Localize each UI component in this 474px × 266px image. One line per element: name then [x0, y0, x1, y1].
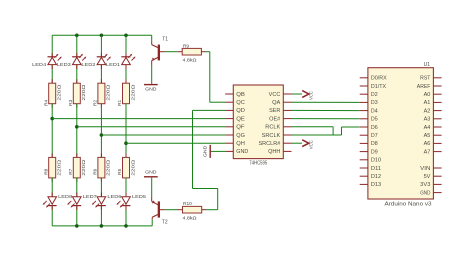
svg-text:A6: A6 — [424, 141, 431, 147]
svg-text:QF: QF — [236, 125, 244, 131]
svg-text:R9: R9 — [183, 43, 189, 49]
svg-text:AREF: AREF — [417, 84, 431, 90]
svg-text:QH: QH — [236, 141, 245, 147]
svg-text:D7: D7 — [371, 133, 378, 139]
svg-text:QD: QD — [236, 108, 245, 114]
svg-text:OE#: OE# — [269, 116, 280, 122]
svg-text:GND: GND — [145, 87, 157, 93]
svg-text:LED5: LED5 — [132, 194, 146, 200]
svg-text:D6: D6 — [371, 125, 378, 131]
svg-text:4.8kΩ: 4.8kΩ — [183, 216, 197, 222]
svg-text:D8: D8 — [371, 141, 378, 147]
svg-text:QA: QA — [272, 100, 281, 106]
svg-text:VCC: VCC — [308, 91, 314, 100]
svg-text:D3: D3 — [371, 100, 378, 106]
svg-text:220Ω: 220Ω — [106, 159, 112, 176]
svg-text:D11: D11 — [371, 166, 381, 172]
svg-text:QC: QC — [236, 100, 245, 106]
svg-text:LED8: LED8 — [58, 194, 72, 200]
svg-text:R6: R6 — [93, 168, 99, 174]
svg-text:D1/TX: D1/TX — [371, 84, 387, 90]
svg-text:D5: D5 — [371, 117, 378, 123]
svg-text:D12: D12 — [371, 174, 381, 180]
svg-text:A1: A1 — [424, 100, 431, 106]
svg-text:220Ω: 220Ω — [81, 159, 87, 176]
svg-text:4.8kΩ: 4.8kΩ — [183, 57, 197, 63]
svg-text:R7: R7 — [68, 168, 74, 174]
svg-text:74HC595: 74HC595 — [249, 160, 267, 166]
svg-text:D9: D9 — [371, 149, 378, 155]
svg-text:220Ω: 220Ω — [130, 84, 136, 101]
svg-text:T1: T1 — [162, 37, 168, 43]
svg-text:220Ω: 220Ω — [130, 159, 136, 176]
svg-text:220Ω: 220Ω — [57, 159, 63, 176]
svg-text:R2: R2 — [93, 99, 99, 105]
svg-text:T2: T2 — [162, 220, 168, 226]
svg-text:A2: A2 — [424, 108, 431, 114]
svg-text:QG: QG — [236, 133, 245, 139]
svg-text:D4: D4 — [371, 108, 378, 114]
svg-text:SER: SER — [269, 108, 281, 114]
svg-text:A4: A4 — [424, 125, 431, 131]
svg-text:D2: D2 — [371, 92, 378, 98]
svg-text:R4: R4 — [43, 99, 49, 105]
svg-text:LED7: LED7 — [83, 194, 97, 200]
svg-text:GND: GND — [420, 190, 431, 196]
svg-text:RCLK: RCLK — [265, 125, 281, 131]
svg-text:R8: R8 — [43, 168, 49, 174]
svg-text:R5: R5 — [117, 168, 123, 174]
svg-text:GND: GND — [236, 149, 248, 155]
svg-text:220Ω: 220Ω — [81, 84, 87, 101]
svg-text:LED4: LED4 — [32, 62, 46, 68]
svg-text:5V: 5V — [424, 174, 432, 180]
svg-text:VCC: VCC — [308, 140, 314, 149]
svg-text:R3: R3 — [68, 99, 74, 105]
svg-text:GND: GND — [145, 169, 157, 175]
svg-text:VCC: VCC — [269, 92, 281, 98]
svg-text:VIN: VIN — [420, 166, 431, 172]
svg-text:GND: GND — [202, 145, 208, 157]
svg-text:A0: A0 — [424, 92, 431, 98]
svg-text:Arduino Nano v3: Arduino Nano v3 — [385, 202, 432, 208]
svg-text:LED1: LED1 — [106, 62, 120, 68]
svg-text:D10: D10 — [371, 158, 381, 164]
svg-text:SRCLR#: SRCLR# — [259, 141, 281, 147]
svg-text:D0/RX: D0/RX — [371, 76, 388, 82]
svg-text:A5: A5 — [424, 133, 431, 139]
svg-text:SRCLK: SRCLK — [262, 133, 281, 139]
svg-text:QE: QE — [236, 116, 245, 122]
svg-text:LED2: LED2 — [81, 62, 95, 68]
svg-text:D13: D13 — [371, 182, 381, 188]
svg-text:R1: R1 — [117, 99, 123, 105]
svg-text:QB: QB — [236, 92, 245, 98]
svg-text:3V3: 3V3 — [420, 182, 430, 188]
svg-text:220Ω: 220Ω — [106, 84, 112, 101]
svg-text:R10: R10 — [183, 201, 192, 207]
svg-text:U1: U1 — [424, 62, 431, 68]
svg-text:A7: A7 — [424, 149, 431, 155]
svg-text:LED6: LED6 — [107, 194, 121, 200]
svg-text:A3: A3 — [424, 117, 431, 123]
svg-text:RST: RST — [420, 76, 430, 82]
svg-text:LED3: LED3 — [57, 62, 71, 68]
svg-text:220Ω: 220Ω — [57, 84, 63, 101]
svg-text:QHH: QHH — [268, 149, 281, 155]
